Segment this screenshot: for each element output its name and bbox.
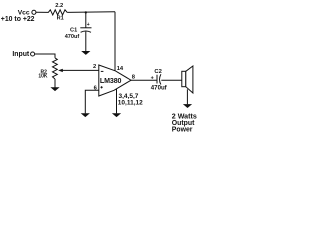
svg-text:10,11,12: 10,11,12 xyxy=(118,99,143,106)
speaker LS1 xyxy=(182,71,186,86)
svg-text:R1: R1 xyxy=(57,16,64,22)
wire R2 to ground xyxy=(54,79,56,88)
capacitor C2 xyxy=(156,75,158,84)
plus sign pin6 xyxy=(101,86,103,88)
ground below speaker xyxy=(183,104,192,108)
wire C2 to speaker xyxy=(161,79,182,81)
wiper arrow wire to pin 2 xyxy=(62,69,99,71)
svg-text:2: 2 xyxy=(93,64,96,70)
ground below C1 xyxy=(81,51,90,55)
svg-text:10K: 10K xyxy=(38,74,48,80)
svg-text:+: + xyxy=(87,22,90,28)
svg-text:470uf: 470uf xyxy=(151,85,168,92)
terminal Vcc xyxy=(32,10,36,14)
wire C1 branch xyxy=(85,12,87,27)
wire Input to R2 xyxy=(35,54,55,58)
wire R1 to pin14 corner xyxy=(67,11,115,14)
svg-text:+: + xyxy=(151,76,154,82)
ground below pin 6 xyxy=(81,113,90,117)
potentiometer R2 xyxy=(53,58,58,79)
wire Vcc to R1 xyxy=(36,11,49,13)
svg-text:2.2: 2.2 xyxy=(55,3,63,9)
wire ground pins 3,4,5,7,10,11,12 xyxy=(116,89,118,114)
svg-text:C1: C1 xyxy=(70,27,77,33)
op-amp U1 LM380 xyxy=(99,65,131,96)
wire pin 8 output xyxy=(131,79,157,81)
svg-text:Power: Power xyxy=(172,126,193,133)
ground below R2 xyxy=(50,87,59,91)
terminal Input xyxy=(31,52,35,56)
svg-text:C2: C2 xyxy=(154,69,161,75)
resistor R1 xyxy=(48,10,67,15)
wiper arrowhead xyxy=(58,69,63,72)
svg-text:LM380: LM380 xyxy=(100,77,122,85)
svg-text:14: 14 xyxy=(117,66,124,72)
junction dot xyxy=(85,11,87,13)
ground below op-amp xyxy=(112,113,121,117)
svg-text:470uf: 470uf xyxy=(65,34,80,40)
wire speaker to ground xyxy=(186,89,188,104)
svg-text:+10 to +22: +10 to +22 xyxy=(1,16,35,23)
wire pin 14 drop xyxy=(114,12,116,71)
minus sign pin2 xyxy=(101,70,104,72)
svg-text:Input: Input xyxy=(12,51,30,58)
wire pin 6 xyxy=(85,90,99,113)
capacitor C1 xyxy=(80,27,91,29)
